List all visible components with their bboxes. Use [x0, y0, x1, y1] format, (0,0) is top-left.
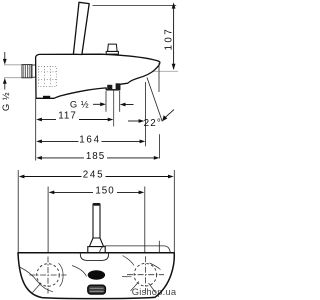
dimension 117 [36, 99, 114, 161]
dimension G1/2 outlet [70, 91, 134, 112]
svg-text:164: 164 [79, 135, 100, 146]
wire nipple edge extension lines [4, 64, 22, 66]
angle 22 deg lines [128, 63, 174, 159]
svg-text:G ½: G ½ [70, 98, 89, 109]
diverter knob [106, 44, 118, 54]
handle lever plan view [88, 203, 105, 252]
sculpt lines plan [20, 256, 161, 293]
nipple G1/2 threaded [22, 65, 36, 79]
body bottom step tick [43, 96, 50, 99]
centerlines right [127, 274, 164, 276]
plateau stub [158, 241, 160, 253]
svg-text:22°: 22° [144, 118, 162, 129]
outlet hatch cells [107, 85, 112, 90]
svg-text:245: 245 [83, 170, 104, 181]
wire supply centerline [36, 70, 178, 72]
svg-text:185: 185 [86, 151, 105, 162]
dimension 185 [36, 151, 159, 162]
body outline side view [36, 54, 160, 98]
body outline plan view [18, 253, 174, 299]
handle lever side view [73, 2, 89, 54]
union circle left dashed [37, 264, 60, 287]
svg-text:150: 150 [95, 186, 114, 197]
svg-text:107: 107 [163, 27, 174, 51]
svg-text:117: 117 [58, 111, 77, 122]
spout mouth dark oval plan [88, 270, 105, 279]
dimension 107 right [93, 2, 177, 70]
cartridge hidden dotted [39, 67, 57, 87]
dimension 164 [36, 135, 145, 146]
dimension 150 [48, 186, 145, 253]
handle escutcheon plan [80, 253, 108, 260]
aerator grille plan [88, 285, 106, 294]
centerlines left [30, 274, 67, 276]
svg-text:Gishop.ua: Gishop.ua [132, 286, 177, 297]
node outlet centerline [113, 91, 115, 127]
spout plateau edge plan [100, 246, 171, 253]
svg-text:G ½: G ½ [0, 92, 11, 111]
dimension G1/2 left vertical [0, 52, 11, 111]
union circle right dashed [134, 263, 157, 286]
dimension 245 [18, 170, 174, 255]
